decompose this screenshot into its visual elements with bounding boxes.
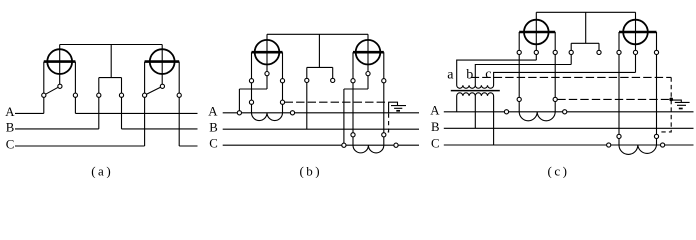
svg-text:B: B bbox=[209, 121, 218, 135]
svg-text:C: C bbox=[209, 137, 218, 151]
svg-text:C: C bbox=[431, 137, 440, 151]
svg-text:(a): (a) bbox=[91, 164, 113, 178]
svg-text:B: B bbox=[431, 120, 440, 134]
svg-text:c: c bbox=[485, 67, 491, 82]
svg-text:b: b bbox=[466, 67, 473, 82]
svg-text:A: A bbox=[430, 103, 440, 117]
svg-text:A: A bbox=[5, 105, 15, 119]
svg-text:A: A bbox=[208, 104, 218, 118]
svg-text:(c): (c) bbox=[548, 164, 570, 178]
svg-text:a: a bbox=[447, 67, 454, 82]
svg-text:C: C bbox=[6, 138, 15, 152]
svg-text:(b): (b) bbox=[299, 164, 322, 178]
svg-text:B: B bbox=[6, 120, 15, 134]
